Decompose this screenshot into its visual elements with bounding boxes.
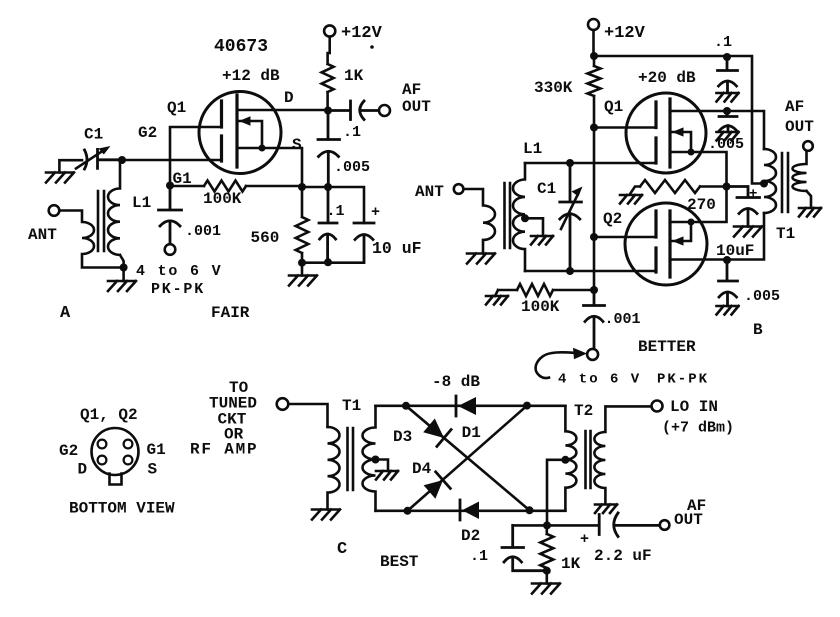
svg-text:Q1, Q2: Q1, Q2 (80, 406, 138, 424)
transformer T2 primary (565, 406, 576, 511)
wire ring diagonal BL-TR (408, 406, 528, 511)
svg-text:Q1: Q1 (167, 99, 186, 117)
transformer T1 (B) primary (764, 149, 776, 213)
wire +12V to 1K (328, 37, 331, 53)
node S rail mid (A) (324, 183, 332, 191)
terminal ANT (B) (454, 184, 464, 194)
transformer L1 (A) primary winding (59, 211, 123, 268)
wire ring top rail (376, 404, 566, 407)
ground L1 tap (B) (531, 236, 553, 245)
capacitor C1 variable (A) (85, 149, 123, 169)
svg-text:4 to 6 V: 4 to 6 V (136, 263, 222, 280)
svg-text:+: + (371, 204, 380, 221)
diode D1 (455, 396, 458, 416)
capacitor 10uF (B) (727, 187, 760, 227)
svg-text:PK-PK: PK-PK (151, 281, 205, 298)
svg-text:T1: T1 (342, 397, 361, 415)
svg-text:+12V: +12V (604, 24, 646, 43)
wire +12V rail to T1 tap (B) (594, 56, 765, 184)
svg-text:BOTTOM VIEW: BOTTOM VIEW (69, 500, 175, 518)
transistor Q1 (B) dual-gate MOSFET (626, 93, 706, 173)
node L1 bottom (A) (120, 264, 128, 272)
node ring TR (523, 402, 531, 410)
transformer T1 (B) secondary (793, 151, 811, 207)
ground 10uF (B) (734, 227, 762, 237)
svg-text:G2: G2 (59, 442, 78, 460)
svg-text:.1: .1 (714, 34, 732, 51)
wire tank bottom rail (B) (525, 270, 656, 273)
node injection (B) (590, 286, 598, 294)
ground T2 secondary (595, 505, 617, 514)
svg-text:.1: .1 (470, 548, 488, 565)
ground source network (A) (301, 263, 304, 276)
node Q2 drain bypass (B) (723, 256, 731, 264)
svg-text:D: D (284, 89, 294, 107)
svg-text:C: C (337, 540, 347, 559)
ground T1 tap (C) (376, 471, 398, 480)
svg-text:560: 560 (251, 229, 280, 247)
terminal BFO injection (A) (165, 244, 176, 255)
transformer T1 (C) primary (328, 427, 340, 510)
arrow to injection terminal (B) (536, 352, 576, 378)
node Q1 G1 (B) (590, 124, 598, 132)
wire tank to gates (A) (122, 127, 222, 186)
transformer L1 (B) core (505, 183, 511, 248)
package tab (110, 474, 122, 485)
transformer T2 secondary (594, 406, 651, 502)
node tank top (A) (118, 156, 126, 164)
wire T1 tap to ground (C) (376, 460, 389, 472)
terminal AF OUT (C) (660, 520, 670, 530)
transformer L1 (B) primary (463, 189, 495, 254)
ground L1 (A) (122, 268, 125, 282)
stray mark (370, 45, 374, 49)
ground 1K (C) (545, 571, 548, 584)
svg-text:B: B (753, 321, 763, 339)
wire source to node S (A) (237, 148, 302, 187)
node S rail left (A) (298, 183, 306, 191)
node ring BR (526, 506, 534, 514)
svg-text:G1: G1 (147, 441, 166, 459)
wire AF rail (C) (513, 524, 599, 527)
node ring BL (404, 507, 412, 515)
transformer L1 (A) core (98, 191, 104, 251)
svg-text:D: D (78, 461, 88, 479)
node C1 top (B) (566, 159, 574, 167)
svg-text:.001: .001 (185, 223, 221, 240)
package can outline (92, 428, 139, 475)
wire bias line (B) (593, 96, 596, 290)
transistor Q2 (B) dual-gate MOSFET (625, 203, 707, 285)
svg-text:+12 dB: +12 dB (222, 67, 280, 85)
svg-text:Q1: Q1 (604, 98, 623, 116)
svg-text:G2: G2 (138, 124, 157, 142)
wire ring bottom rail (376, 509, 566, 512)
svg-text:OUT: OUT (674, 511, 703, 529)
svg-text:330K: 330K (534, 79, 573, 97)
ground C1 left (A) (59, 160, 82, 172)
svg-text:OUT: OUT (402, 98, 431, 116)
svg-text:1K: 1K (344, 67, 364, 85)
resistor 100K (A) (170, 181, 302, 192)
svg-text:D4: D4 (412, 460, 432, 478)
svg-text:OUT: OUT (785, 118, 814, 136)
capacitor .001 (A) (159, 186, 182, 245)
svg-text:+12V: +12V (341, 24, 383, 43)
node L1 tap (B) (521, 214, 529, 222)
package pin S (124, 456, 133, 465)
wire T2 tap to AF node (547, 460, 565, 526)
svg-text:C1: C1 (84, 126, 103, 144)
svg-text:S: S (148, 461, 158, 479)
transformer L1 (A) secondary winding (108, 160, 124, 268)
svg-text:D3: D3 (393, 428, 412, 446)
terminal BFO injection (B) (587, 349, 598, 360)
resistor 330K (588, 56, 601, 96)
wire Q1 drain to T1 (B) (670, 111, 764, 149)
transformer L1 (B) secondary (513, 163, 525, 271)
capacitor 10 uF (A) (354, 223, 374, 262)
wire tank top rail (B) (525, 162, 656, 165)
terminal AF OUT (A) (379, 105, 390, 116)
package pin D (98, 456, 107, 465)
ground T1 secondary (B) (799, 208, 821, 217)
capacitor .005 lower (B) (719, 260, 738, 306)
capacitor 2.2 uF (599, 513, 659, 537)
svg-text:LO IN: LO IN (670, 398, 718, 416)
svg-text:AF: AF (785, 98, 804, 116)
ground .005 upper (B) (717, 132, 739, 141)
package pin G1 (124, 440, 133, 449)
node T2 tap (561, 456, 569, 464)
node bottom mid (A) (324, 258, 332, 266)
wire ring diagonal TL-BR (406, 406, 530, 511)
svg-text:10uF: 10uF (716, 242, 754, 260)
svg-text:D2: D2 (461, 527, 480, 545)
node ring TL (402, 402, 410, 410)
node Q2 G1 (B) (590, 233, 598, 241)
diode D3 (437, 430, 451, 447)
capacitor C1 variable (B) (560, 163, 582, 271)
svg-text:10 uF: 10 uF (372, 239, 422, 258)
wire input to T1 (C) (288, 404, 327, 427)
terminal +12V (B) (588, 19, 599, 30)
svg-text:RF AMP: RF AMP (190, 441, 258, 459)
svg-text:+: + (580, 531, 589, 548)
transistor Q1 (A) 40673 dual-gate MOSFET (199, 92, 281, 174)
terminal +12V (A) (324, 25, 335, 36)
capacitor .1 output coupling (A) (328, 101, 379, 120)
ground 270 (B) (620, 195, 642, 204)
ground .005 lower (B) (717, 306, 739, 315)
svg-text:FAIR: FAIR (211, 304, 250, 322)
svg-text:4 to 6 V: 4 to 6 V (558, 372, 641, 388)
svg-text:.001: .001 (605, 311, 641, 328)
node Q1 drain bypass (B) (723, 107, 731, 115)
svg-text:2.2 uF: 2.2 uF (594, 547, 652, 565)
svg-text:ANT: ANT (415, 183, 444, 201)
svg-text:.1: .1 (327, 203, 345, 220)
svg-text:.005: .005 (334, 159, 370, 176)
wire S rail (A) (302, 187, 364, 223)
svg-text:T1: T1 (776, 225, 795, 243)
node +12V rail (B) (590, 52, 598, 60)
transformer T1 (C) core (348, 428, 354, 490)
svg-text:1K: 1K (561, 555, 581, 573)
terminal ANT (A) (49, 205, 60, 216)
capacitor .1 source bypass (A) (319, 187, 337, 262)
capacitor .005 (A) (318, 111, 340, 188)
svg-text:L1: L1 (523, 140, 542, 158)
node supply bypass (B) (723, 53, 731, 61)
resistor 100K (B) (495, 284, 594, 296)
svg-text:100K: 100K (203, 190, 242, 208)
svg-text:PK-PK: PK-PK (657, 372, 709, 388)
resistor 270 (630, 180, 727, 194)
svg-text:L1: L1 (132, 194, 151, 212)
node T1 tap (C) (372, 456, 380, 464)
diode D2 (459, 500, 462, 520)
capacitor .1 supply bypass (B) (718, 57, 738, 93)
svg-text:100K: 100K (521, 298, 560, 316)
capacitor .1 (C) (502, 525, 547, 570)
wire drain to node D (237, 109, 328, 112)
wire L1 tap to ground (B) (525, 218, 543, 236)
svg-text:270: 270 (687, 196, 716, 214)
ground L1 primary (B) (467, 254, 495, 264)
svg-text:BETTER: BETTER (638, 338, 696, 356)
svg-text:D1: D1 (462, 424, 481, 442)
wire Q1 gate lead (B) (594, 126, 656, 129)
capacitor .005 upper (B) (719, 111, 737, 132)
svg-text:-8 dB: -8 dB (432, 373, 480, 391)
svg-text:ANT: ANT (28, 226, 57, 244)
resistor 1K (C) (540, 525, 553, 570)
node G1 bias (A) (166, 182, 174, 190)
ground T1 primary (C) (312, 510, 340, 520)
package pin G2 (98, 440, 107, 449)
wire Q2 gate lead (B) (594, 236, 656, 239)
svg-text:(+7 dBm): (+7 dBm) (662, 420, 734, 437)
svg-text:T2: T2 (574, 402, 593, 420)
ground 100K (B) (486, 296, 508, 305)
svg-text:S: S (292, 136, 302, 154)
wire Q2 drain to T1 (B) (670, 213, 764, 260)
node AF junction (C) (543, 521, 551, 529)
node C1 bottom (B) (566, 267, 574, 275)
svg-text:40673: 40673 (214, 37, 268, 57)
svg-text:C1: C1 (537, 180, 556, 198)
resistor 560 (296, 187, 309, 263)
terminal LO IN (652, 401, 663, 412)
diode D4 (436, 472, 451, 489)
svg-text:.005: .005 (744, 288, 780, 305)
svg-text:A: A (60, 304, 71, 323)
node bottom left (A) (298, 259, 306, 267)
ground .1 (B) (717, 93, 739, 102)
wire Q1 source (B) (670, 152, 727, 187)
wire +12V stem (B) (592, 30, 595, 56)
terminal AF OUT (B) (803, 141, 813, 151)
svg-text:BEST: BEST (380, 553, 419, 571)
capacitor .001 (B) (584, 290, 605, 349)
svg-text:+: + (749, 187, 757, 203)
wire Q2 source (B) (670, 187, 727, 223)
transformer T1 (B) core (782, 153, 788, 212)
transformer T1 (C) secondary (363, 406, 376, 511)
wire bottom rail (A) (302, 261, 364, 264)
node D (A) (324, 107, 332, 115)
node source junction (B) (723, 183, 731, 191)
transformer T2 core (586, 431, 591, 488)
svg-text:Q2: Q2 (603, 210, 622, 228)
svg-text:AF: AF (402, 81, 421, 99)
resistor 1K (A) (322, 53, 334, 111)
terminal input (C) (277, 398, 289, 410)
node 1K bottom (C) (543, 567, 551, 575)
svg-text:+20 dB: +20 dB (638, 69, 696, 87)
svg-text:.1: .1 (343, 124, 361, 141)
node T1 center tap (B) (760, 180, 768, 188)
